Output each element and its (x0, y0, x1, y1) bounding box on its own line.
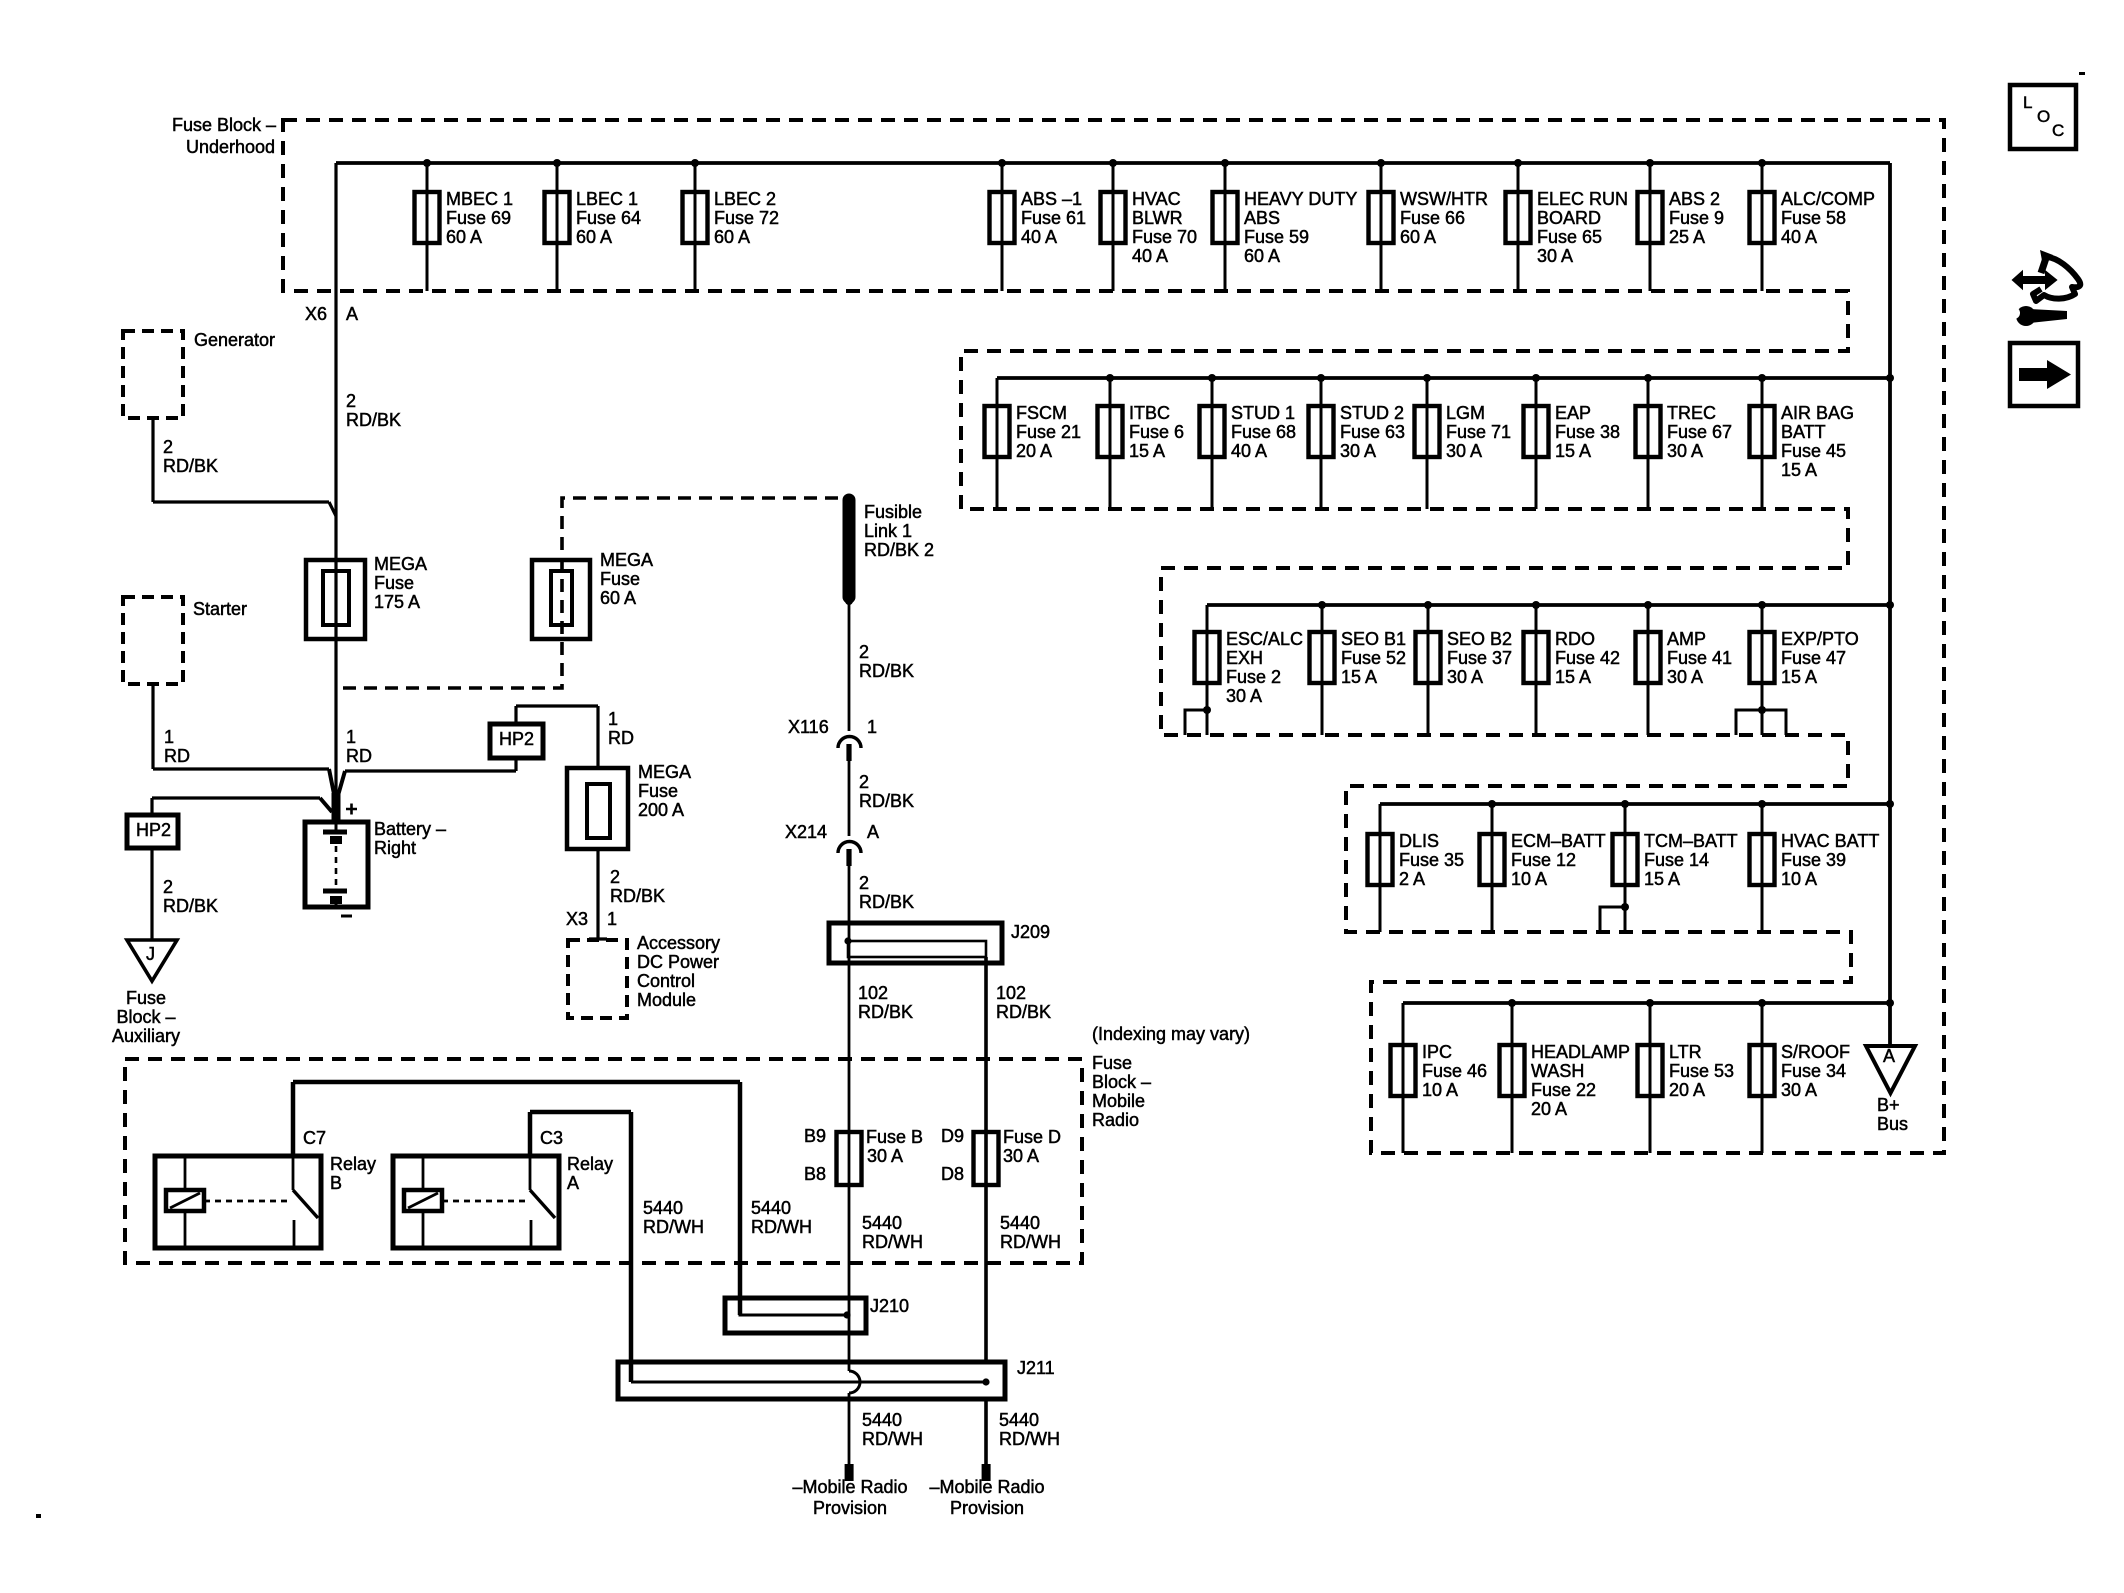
svg-text:(Indexing may vary): (Indexing may vary) (1092, 1024, 1250, 1044)
svg-text:B: B (330, 1173, 342, 1193)
svg-text:RD: RD (346, 746, 372, 766)
svg-text:60 A: 60 A (1244, 246, 1280, 266)
svg-text:STUD 1: STUD 1 (1231, 403, 1295, 423)
svg-text:Provision: Provision (813, 1498, 887, 1518)
svg-text:Relay: Relay (330, 1154, 376, 1174)
svg-text:5440: 5440 (999, 1410, 1039, 1430)
svg-text:WSW/HTR: WSW/HTR (1400, 189, 1488, 209)
svg-text:B+: B+ (1877, 1095, 1900, 1115)
svg-text:HEAVY DUTY: HEAVY DUTY (1244, 189, 1357, 209)
svg-text:2 A: 2 A (1399, 869, 1425, 889)
svg-text:Starter: Starter (193, 599, 247, 619)
svg-text:RD/BK: RD/BK (859, 791, 914, 811)
svg-text:Fuse 53: Fuse 53 (1669, 1061, 1734, 1081)
svg-text:Fuse 9: Fuse 9 (1669, 208, 1724, 228)
svg-text:HP2: HP2 (499, 729, 534, 749)
svg-text:AIR BAG: AIR BAG (1781, 403, 1854, 423)
svg-text:60 A: 60 A (1400, 227, 1436, 247)
svg-text:Module: Module (637, 990, 696, 1010)
svg-text:LGM: LGM (1446, 403, 1485, 423)
svg-text:2: 2 (610, 867, 620, 887)
svg-text:Fuse 39: Fuse 39 (1781, 850, 1846, 870)
svg-text:Fuse 6: Fuse 6 (1129, 422, 1184, 442)
svg-text:BLWR: BLWR (1132, 208, 1183, 228)
svg-text:60 A: 60 A (446, 227, 482, 247)
svg-text:RD: RD (164, 746, 190, 766)
svg-text:A: A (1883, 1046, 1895, 1066)
svg-text:15 A: 15 A (1129, 441, 1165, 461)
svg-text:Fuse: Fuse (1092, 1053, 1132, 1073)
svg-text:D8: D8 (941, 1164, 964, 1184)
svg-text:A: A (346, 304, 358, 324)
svg-text:ESC/ALC: ESC/ALC (1226, 629, 1303, 649)
svg-text:Fuse 71: Fuse 71 (1446, 422, 1511, 442)
svg-text:1: 1 (607, 909, 617, 929)
svg-text:Fuse 66: Fuse 66 (1400, 208, 1465, 228)
svg-text:J: J (146, 944, 155, 964)
svg-text:ALC/COMP: ALC/COMP (1781, 189, 1875, 209)
svg-text:Fuse B: Fuse B (866, 1127, 923, 1147)
svg-text:LBEC 2: LBEC 2 (714, 189, 776, 209)
svg-text:S/ROOF: S/ROOF (1781, 1042, 1850, 1062)
svg-text:1: 1 (346, 727, 356, 747)
svg-text:ITBC: ITBC (1129, 403, 1170, 423)
svg-text:30 A: 30 A (1226, 686, 1262, 706)
svg-text:A: A (867, 822, 879, 842)
svg-text:Radio: Radio (1092, 1110, 1139, 1130)
svg-text:RD/BK: RD/BK (859, 892, 914, 912)
svg-text:C: C (2052, 121, 2064, 140)
svg-text:Fuse 21: Fuse 21 (1016, 422, 1081, 442)
svg-text:30 A: 30 A (1447, 667, 1483, 687)
svg-text:40 A: 40 A (1231, 441, 1267, 461)
svg-text:L: L (2023, 93, 2032, 112)
svg-text:2: 2 (163, 437, 173, 457)
svg-text:Bus: Bus (1877, 1114, 1908, 1134)
svg-text:Fuse 22: Fuse 22 (1531, 1080, 1596, 1100)
svg-text:Fuse 67: Fuse 67 (1667, 422, 1732, 442)
svg-text:B8: B8 (804, 1164, 826, 1184)
svg-text:RD/BK: RD/BK (858, 1002, 913, 1022)
svg-text:RD/BK: RD/BK (346, 410, 401, 430)
svg-text:Fuse Block –: Fuse Block – (172, 115, 276, 135)
svg-text:30 A: 30 A (1667, 667, 1703, 687)
svg-text:10 A: 10 A (1511, 869, 1547, 889)
svg-text:2: 2 (163, 877, 173, 897)
svg-text:Link 1: Link 1 (864, 521, 912, 541)
svg-text:LBEC 1: LBEC 1 (576, 189, 638, 209)
svg-text:Fuse 68: Fuse 68 (1231, 422, 1296, 442)
svg-text:Relay: Relay (567, 1154, 613, 1174)
svg-text:2: 2 (859, 642, 869, 662)
svg-text:Generator: Generator (194, 330, 275, 350)
svg-text:O: O (2037, 107, 2050, 126)
svg-text:Fuse 2: Fuse 2 (1226, 667, 1281, 687)
svg-text:Fuse 61: Fuse 61 (1021, 208, 1086, 228)
svg-text:J210: J210 (870, 1296, 909, 1316)
svg-text:Fuse 12: Fuse 12 (1511, 850, 1576, 870)
svg-text:60 A: 60 A (576, 227, 612, 247)
svg-text:BOARD: BOARD (1537, 208, 1601, 228)
svg-text:Block –: Block – (1092, 1072, 1151, 1092)
svg-text:D9: D9 (941, 1126, 964, 1146)
svg-text:ECM–BATT: ECM–BATT (1511, 831, 1606, 851)
svg-text:5440: 5440 (862, 1410, 902, 1430)
svg-text:Fuse 45: Fuse 45 (1781, 441, 1846, 461)
svg-text:5440: 5440 (1000, 1213, 1040, 1233)
svg-text:MBEC 1: MBEC 1 (446, 189, 513, 209)
svg-text:EAP: EAP (1555, 403, 1591, 423)
svg-text:Underhood: Underhood (186, 137, 275, 157)
svg-text:60 A: 60 A (714, 227, 750, 247)
svg-text:C7: C7 (303, 1128, 326, 1148)
svg-text:Fuse 37: Fuse 37 (1447, 648, 1512, 668)
svg-text:Fuse 52: Fuse 52 (1341, 648, 1406, 668)
svg-text:20 A: 20 A (1016, 441, 1052, 461)
svg-text:Fuse: Fuse (638, 781, 678, 801)
svg-text:ABS: ABS (1244, 208, 1280, 228)
svg-text:RD/WH: RD/WH (999, 1429, 1060, 1449)
svg-text:MEGA: MEGA (374, 554, 427, 574)
svg-text:102: 102 (858, 983, 888, 1003)
svg-text:Auxiliary: Auxiliary (112, 1026, 180, 1046)
svg-text:200 A: 200 A (638, 800, 684, 820)
svg-text:RD/WH: RD/WH (643, 1217, 704, 1237)
svg-text:Mobile: Mobile (1092, 1091, 1145, 1111)
svg-text:–Mobile Radio: –Mobile Radio (929, 1477, 1044, 1497)
svg-text:IPC: IPC (1422, 1042, 1452, 1062)
svg-text:RDO: RDO (1555, 629, 1595, 649)
svg-text:–Mobile Radio: –Mobile Radio (792, 1477, 907, 1497)
svg-text:15 A: 15 A (1341, 667, 1377, 687)
svg-text:ABS 2: ABS 2 (1669, 189, 1720, 209)
svg-text:DC Power: DC Power (637, 952, 719, 972)
svg-text:J209: J209 (1011, 922, 1050, 942)
svg-text:Fuse 59: Fuse 59 (1244, 227, 1309, 247)
svg-text:X3: X3 (566, 909, 588, 929)
svg-text:Fuse 42: Fuse 42 (1555, 648, 1620, 668)
svg-text:RD: RD (608, 728, 634, 748)
svg-text:2: 2 (346, 391, 356, 411)
svg-text:Fuse: Fuse (600, 569, 640, 589)
svg-text:A: A (567, 1173, 579, 1193)
svg-text:Fuse 38: Fuse 38 (1555, 422, 1620, 442)
svg-text:TREC: TREC (1667, 403, 1716, 423)
svg-text:J211: J211 (1017, 1358, 1055, 1378)
svg-text:Fuse 41: Fuse 41 (1667, 648, 1732, 668)
svg-text:175 A: 175 A (374, 592, 420, 612)
svg-text:30 A: 30 A (1781, 1080, 1817, 1100)
svg-text:30 A: 30 A (1446, 441, 1482, 461)
svg-text:5440: 5440 (862, 1213, 902, 1233)
svg-text:MEGA: MEGA (600, 550, 653, 570)
svg-text:RD/BK: RD/BK (163, 456, 218, 476)
svg-text:5440: 5440 (751, 1198, 791, 1218)
svg-text:Control: Control (637, 971, 695, 991)
svg-text:Fuse 58: Fuse 58 (1781, 208, 1846, 228)
svg-text:STUD 2: STUD 2 (1340, 403, 1404, 423)
svg-text:1: 1 (867, 717, 877, 737)
svg-text:RD/WH: RD/WH (862, 1232, 923, 1252)
svg-text:FSCM: FSCM (1016, 403, 1067, 423)
svg-text:102: 102 (996, 983, 1026, 1003)
svg-text:40 A: 40 A (1021, 227, 1057, 247)
svg-text:Fusible: Fusible (864, 502, 922, 522)
svg-text:Fuse 72: Fuse 72 (714, 208, 779, 228)
svg-text:RD/BK: RD/BK (996, 1002, 1051, 1022)
svg-text:30 A: 30 A (1340, 441, 1376, 461)
svg-text:LTR: LTR (1669, 1042, 1702, 1062)
svg-text:Provision: Provision (950, 1498, 1024, 1518)
svg-text:10 A: 10 A (1781, 869, 1817, 889)
svg-text:15 A: 15 A (1781, 460, 1817, 480)
svg-text:Fuse 65: Fuse 65 (1537, 227, 1602, 247)
svg-text:RD/WH: RD/WH (1000, 1232, 1061, 1252)
svg-text:1: 1 (608, 709, 618, 729)
svg-text:Fuse 70: Fuse 70 (1132, 227, 1197, 247)
svg-text:HP2: HP2 (136, 820, 171, 840)
svg-text:HVAC BATT: HVAC BATT (1781, 831, 1879, 851)
svg-text:Fuse: Fuse (374, 573, 414, 593)
svg-text:Fuse D: Fuse D (1003, 1127, 1061, 1147)
svg-text:30 A: 30 A (1537, 246, 1573, 266)
svg-text:C3: C3 (540, 1128, 563, 1148)
svg-text:MEGA: MEGA (638, 762, 691, 782)
svg-text:B9: B9 (804, 1126, 826, 1146)
svg-text:20 A: 20 A (1669, 1080, 1705, 1100)
svg-text:BATT: BATT (1781, 422, 1826, 442)
svg-text:Fuse 34: Fuse 34 (1781, 1061, 1846, 1081)
svg-text:60 A: 60 A (600, 588, 636, 608)
svg-text:15 A: 15 A (1644, 869, 1680, 889)
svg-text:WASH: WASH (1531, 1061, 1584, 1081)
svg-text:40 A: 40 A (1132, 246, 1168, 266)
svg-text:RD/BK: RD/BK (163, 896, 218, 916)
svg-text:Fuse 47: Fuse 47 (1781, 648, 1846, 668)
svg-text:Right: Right (374, 838, 416, 858)
svg-text:TCM–BATT: TCM–BATT (1644, 831, 1738, 851)
svg-text:30 A: 30 A (1667, 441, 1703, 461)
svg-text:HVAC: HVAC (1132, 189, 1181, 209)
svg-text:15 A: 15 A (1781, 667, 1817, 687)
svg-text:Fuse 14: Fuse 14 (1644, 850, 1709, 870)
svg-text:X6: X6 (305, 304, 327, 324)
svg-text:Block –: Block – (116, 1007, 175, 1027)
svg-text:ABS –1: ABS –1 (1021, 189, 1082, 209)
svg-text:15 A: 15 A (1555, 667, 1591, 687)
svg-text:SEO B2: SEO B2 (1447, 629, 1512, 649)
svg-text:1: 1 (164, 727, 174, 747)
svg-text:Fuse 64: Fuse 64 (576, 208, 641, 228)
svg-text:30 A: 30 A (867, 1146, 903, 1166)
svg-text:RD/BK 2: RD/BK 2 (864, 540, 934, 560)
svg-text:2: 2 (859, 772, 869, 792)
svg-text:DLIS: DLIS (1399, 831, 1439, 851)
svg-text:ELEC RUN: ELEC RUN (1537, 189, 1628, 209)
svg-text:5440: 5440 (643, 1198, 683, 1218)
svg-text:RD/WH: RD/WH (862, 1429, 923, 1449)
svg-text:2: 2 (859, 873, 869, 893)
svg-text:30 A: 30 A (1003, 1146, 1039, 1166)
svg-text:Fuse 35: Fuse 35 (1399, 850, 1464, 870)
svg-text:40 A: 40 A (1781, 227, 1817, 247)
svg-text:RD/BK: RD/BK (610, 886, 665, 906)
svg-text:X214: X214 (785, 822, 827, 842)
svg-text:EXH: EXH (1226, 648, 1263, 668)
svg-text:EXP/PTO: EXP/PTO (1781, 629, 1859, 649)
svg-text:RD/BK: RD/BK (859, 661, 914, 681)
svg-text:Fuse 63: Fuse 63 (1340, 422, 1405, 442)
svg-text:SEO B1: SEO B1 (1341, 629, 1406, 649)
svg-text:Battery –: Battery – (374, 819, 446, 839)
svg-text:HEADLAMP: HEADLAMP (1531, 1042, 1630, 1062)
svg-text:AMP: AMP (1667, 629, 1706, 649)
svg-text:Fuse: Fuse (126, 988, 166, 1008)
svg-text:Accessory: Accessory (637, 933, 720, 953)
svg-text:25 A: 25 A (1669, 227, 1705, 247)
svg-text:20 A: 20 A (1531, 1099, 1567, 1119)
svg-text:Fuse 69: Fuse 69 (446, 208, 511, 228)
svg-text:Fuse 46: Fuse 46 (1422, 1061, 1487, 1081)
svg-text:10 A: 10 A (1422, 1080, 1458, 1100)
svg-text:RD/WH: RD/WH (751, 1217, 812, 1237)
svg-text:15 A: 15 A (1555, 441, 1591, 461)
svg-text:X116: X116 (788, 717, 829, 737)
